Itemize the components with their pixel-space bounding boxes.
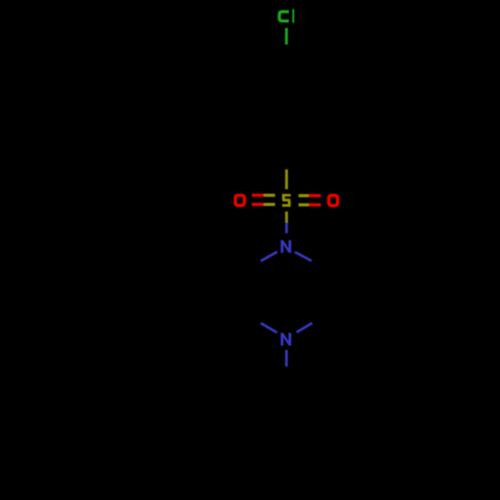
S=O double bond right lower line — [299, 203, 321, 206]
piperazine bond N1-C6 (nitrogen half, upper-right) — [295, 252, 312, 261]
sulfur letter S (blocky) — [282, 194, 291, 207]
nitrogen N top — [281, 240, 292, 253]
nitrogen N bottom — [281, 333, 292, 346]
piperazine bond N1-C2 (nitrogen half, upper-left) — [261, 252, 278, 261]
S=O double bond left upper line — [252, 194, 275, 197]
S=O double bond left lower line — [252, 203, 275, 206]
oxygen O right — [329, 195, 338, 205]
chlorine label Cl — [279, 12, 289, 21]
chlorine label l bar — [292, 9, 294, 23]
bond S-N sulfur half (below S) — [285, 212, 288, 223]
bond Cl-C (green half) — [285, 28, 288, 45]
piperazine bond N4-C3 (nitrogen half, lower-left) — [261, 323, 278, 333]
bond N4-CH2 (nitrogen half, below bottom N) — [285, 350, 288, 367]
oxygen O left — [235, 195, 244, 205]
bond C-S (sulfur half, above S) — [285, 169, 288, 189]
bond S-N nitrogen half — [285, 223, 288, 234]
S=O double bond right upper line — [299, 194, 321, 197]
piperazine bond N4-C5 (nitrogen half, lower-right) — [297, 323, 313, 332]
